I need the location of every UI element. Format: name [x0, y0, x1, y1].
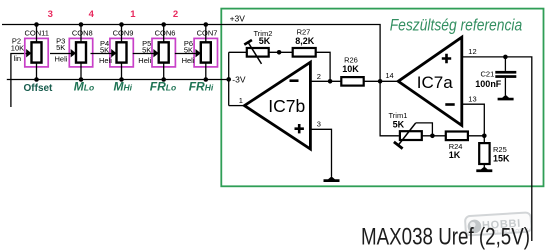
connector CON11 outline	[25, 38, 48, 67]
wire P5 wiper stub	[133, 53, 154, 55]
svg-text:100nF: 100nF	[475, 79, 502, 89]
wire P2 bottom	[36, 63, 38, 80]
node dot P4 bottom	[119, 77, 124, 82]
wire IC7a pin12 to C21 and off-page	[462, 57, 532, 241]
node dot P2 top	[34, 22, 39, 27]
wire -3V left rail vertical	[228, 52, 230, 105]
node dot P3 bottom	[79, 77, 84, 82]
svg-text:IC7b: IC7b	[268, 96, 305, 116]
IC7b minus input mark	[290, 79, 299, 82]
svg-text:Heli: Heli	[99, 56, 112, 65]
svg-text:5K: 5K	[259, 36, 271, 46]
Trim2 arrow T-bar	[244, 40, 252, 45]
svg-text:-3V: -3V	[232, 74, 246, 84]
resistor R26 body	[341, 77, 363, 86]
svg-text:1K: 1K	[449, 150, 461, 160]
svg-text:15K: 15K	[493, 153, 510, 163]
svg-text:FRHi: FRHi	[189, 80, 214, 94]
svg-text:Heli: Heli	[138, 56, 151, 65]
wire -3V bottom rail under pots	[7, 79, 229, 81]
resistor R27 body	[293, 48, 316, 57]
svg-text:3: 3	[317, 120, 321, 129]
svg-text:5K: 5K	[100, 46, 109, 55]
node dot P6 top	[204, 22, 209, 27]
wire P3 top	[80, 25, 82, 43]
svg-text:5K: 5K	[142, 46, 151, 55]
wire Trim2 to R27	[269, 51, 293, 53]
IC7a plus input mark	[442, 54, 451, 63]
op-amp IC7b	[244, 62, 310, 149]
node dot P5 top	[161, 22, 166, 27]
svg-text:10K: 10K	[11, 44, 24, 53]
wire IC7b pin3 to ground	[310, 129, 331, 177]
svg-text:Feszültség referencia: Feszültség referencia	[390, 16, 523, 35]
node dot Trim1 wiper	[430, 134, 435, 139]
node dot Trim2/R27	[277, 50, 282, 55]
node dot pin14	[378, 79, 383, 84]
svg-text:10K: 10K	[342, 64, 359, 74]
wire P6 wiper stub	[175, 53, 196, 55]
connector CON8 outline	[69, 38, 92, 67]
wire Trim1 wiper loop	[416, 123, 433, 136]
svg-text:MHi: MHi	[114, 80, 133, 94]
trimmer Trim2 body	[247, 48, 269, 57]
wire P5 top	[163, 25, 165, 43]
op-amp IC7a	[398, 37, 462, 125]
wire R27 right to pin2 node	[316, 52, 330, 81]
svg-text:2: 2	[317, 72, 321, 81]
wire P2 top	[36, 25, 38, 43]
svg-text:lin: lin	[14, 54, 22, 63]
IC7a minus input mark	[445, 103, 454, 106]
svg-text:5K: 5K	[184, 46, 193, 55]
svg-text:Heli: Heli	[182, 56, 195, 65]
wire pin14 node down to feedback chain	[380, 81, 399, 136]
wire IC7b pin2 to R26	[310, 80, 341, 82]
svg-text:FRLo: FRLo	[150, 80, 176, 94]
svg-text:13: 13	[468, 94, 476, 103]
P5 wiper arrow	[153, 49, 158, 57]
svg-text:CON7: CON7	[197, 29, 218, 38]
potentiometer P5 body	[159, 42, 169, 62]
C21 bottom plate	[495, 75, 516, 78]
wire R25 top	[483, 136, 485, 143]
svg-text:MAX038 Uref (2,5V): MAX038 Uref (2,5V)	[361, 223, 530, 250]
connector CON9 outline	[110, 38, 133, 67]
wire P6 top	[205, 25, 207, 43]
node dot P6 bottom	[204, 77, 209, 82]
wire P3 wiper stub	[50, 53, 71, 55]
potentiometer P2 body	[32, 42, 42, 62]
svg-text:5K: 5K	[393, 119, 405, 129]
wire IC7a pin13	[462, 104, 485, 136]
svg-text:CON6: CON6	[155, 29, 176, 38]
wire P3 bottom	[80, 63, 82, 80]
ground symbol (IC7b pin3)	[324, 176, 340, 182]
node dot pin2/R27	[328, 79, 333, 84]
svg-text:1: 1	[130, 9, 136, 20]
ground symbol (R25)	[476, 167, 492, 173]
wire P5 bottom	[163, 63, 165, 80]
Trim1 arrow T-bar	[394, 142, 403, 149]
wire P4 bottom	[121, 63, 123, 80]
wire R24 to R25 node	[468, 135, 484, 137]
wire P2 wiper vertical	[11, 54, 27, 108]
C21 top plate	[495, 71, 516, 74]
node dot P4 top	[119, 22, 124, 27]
resistor R25 body	[479, 136, 510, 167]
wire P6 bottom	[205, 63, 207, 80]
connector CON7 outline	[194, 38, 217, 67]
svg-text:MLo: MLo	[74, 80, 94, 94]
P2 wiper arrow	[26, 49, 31, 57]
wire P4 top	[121, 25, 123, 43]
svg-text:12: 12	[468, 47, 476, 56]
svg-text:Heli: Heli	[55, 55, 68, 64]
wire Trim1 to R24	[422, 135, 446, 137]
wire R26 to pin14 node	[364, 80, 399, 82]
node dot C21	[503, 55, 508, 60]
node dot -3V	[226, 77, 231, 82]
ground symbol (C21)	[498, 95, 514, 101]
wire IC7b pin1 output	[229, 105, 245, 107]
wire C21 top	[504, 57, 506, 71]
svg-text:5K: 5K	[56, 43, 65, 52]
potentiometer P4 body	[117, 42, 127, 62]
wire R25 bottom	[483, 164, 485, 167]
connector CON6 outline	[152, 38, 175, 67]
svg-text:8,2K: 8,2K	[295, 36, 315, 46]
potentiometer P6 body	[201, 42, 211, 62]
wire P4 wiper stub	[91, 53, 112, 55]
wire C21 bottom	[504, 78, 506, 95]
P4 wiper arrow	[111, 49, 116, 57]
svg-text:2: 2	[173, 9, 178, 20]
node dot R24/R25/pin13	[482, 134, 487, 139]
wire +3V top rail from pots to IC7a pin14 node	[2, 25, 380, 82]
svg-text:C21: C21	[481, 69, 495, 78]
svg-text:4: 4	[89, 9, 95, 20]
potentiometer P3 body	[76, 42, 86, 62]
svg-text:CON9: CON9	[113, 29, 134, 38]
svg-text:IC7a: IC7a	[417, 73, 453, 92]
node dot P3 top	[79, 22, 84, 27]
node dot P2 bottom	[34, 77, 39, 82]
IC7b plus input mark	[295, 124, 304, 133]
node dot P5 bottom	[161, 77, 166, 82]
wire feedback top: -3V rail to Trim2	[229, 51, 247, 53]
capacitor C21	[475, 57, 516, 95]
watermark HOBBI logo	[465, 212, 533, 237]
green frame: Feszültség referencia box	[221, 9, 543, 187]
P6 wiper arrow	[196, 49, 201, 57]
svg-text:+3V: +3V	[230, 14, 246, 24]
Trim2 adjust arrow	[248, 43, 261, 64]
svg-text:CON8: CON8	[72, 29, 93, 38]
P3 wiper arrow	[71, 49, 76, 57]
svg-text:14: 14	[385, 71, 393, 80]
Trim1 adjust arrow	[398, 123, 416, 146]
trimmer Trim1 body	[400, 131, 422, 140]
svg-text:1: 1	[239, 96, 243, 105]
svg-text:Offset: Offset	[24, 83, 54, 94]
svg-text:3: 3	[48, 9, 53, 20]
resistor R24 body	[446, 132, 468, 141]
